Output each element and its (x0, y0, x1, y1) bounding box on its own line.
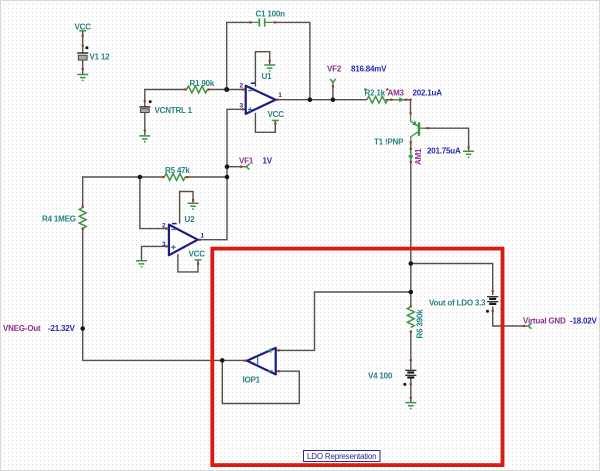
svg-text:V4 100: V4 100 (368, 372, 393, 381)
svg-text:VCC: VCC (75, 23, 92, 32)
svg-text:R2 1k: R2 1k (365, 88, 386, 97)
svg-text:1V: 1V (263, 157, 273, 166)
svg-text:1: 1 (201, 233, 205, 240)
svg-text:C1 100n: C1 100n (256, 9, 286, 18)
svg-text:VCC: VCC (189, 250, 206, 259)
svg-text:R6 390k: R6 390k (416, 309, 425, 339)
svg-text:VF2: VF2 (327, 65, 342, 74)
svg-text:AM1: AM1 (414, 148, 423, 165)
svg-text:T1 !PNP: T1 !PNP (374, 138, 404, 147)
svg-text:2: 2 (162, 223, 166, 230)
svg-text:R1 90k: R1 90k (190, 79, 215, 88)
svg-text:3: 3 (162, 241, 166, 248)
svg-text:202.1uA: 202.1uA (413, 88, 443, 97)
svg-text:-18.02V: -18.02V (570, 317, 597, 326)
svg-text:VNEG-Out: VNEG-Out (3, 324, 41, 333)
svg-text:V1 12: V1 12 (90, 53, 111, 62)
svg-text:Virtual GND: Virtual GND (523, 317, 566, 326)
svg-text:U2: U2 (185, 215, 196, 224)
svg-text:IOP1: IOP1 (243, 376, 261, 385)
svg-text:U1: U1 (262, 72, 273, 81)
svg-text:VCC: VCC (268, 110, 285, 119)
svg-text:R5 47k: R5 47k (165, 166, 190, 175)
svg-text:816.84mV: 816.84mV (351, 65, 387, 74)
svg-text:3: 3 (240, 103, 244, 110)
svg-text:201.75uA: 201.75uA (427, 147, 461, 156)
svg-text:VCNTRL 1: VCNTRL 1 (155, 106, 193, 115)
svg-text:VF1: VF1 (239, 157, 254, 166)
svg-text:1: 1 (278, 92, 282, 99)
svg-text:2: 2 (240, 83, 244, 90)
svg-text:AM3: AM3 (388, 88, 405, 97)
svg-text:R4 1MEG: R4 1MEG (42, 215, 76, 224)
svg-text:Vout of LDO 3.3: Vout of LDO 3.3 (429, 299, 486, 308)
svg-text:-21.32V: -21.32V (48, 324, 75, 333)
svg-text:LDO Representation: LDO Representation (307, 452, 376, 461)
